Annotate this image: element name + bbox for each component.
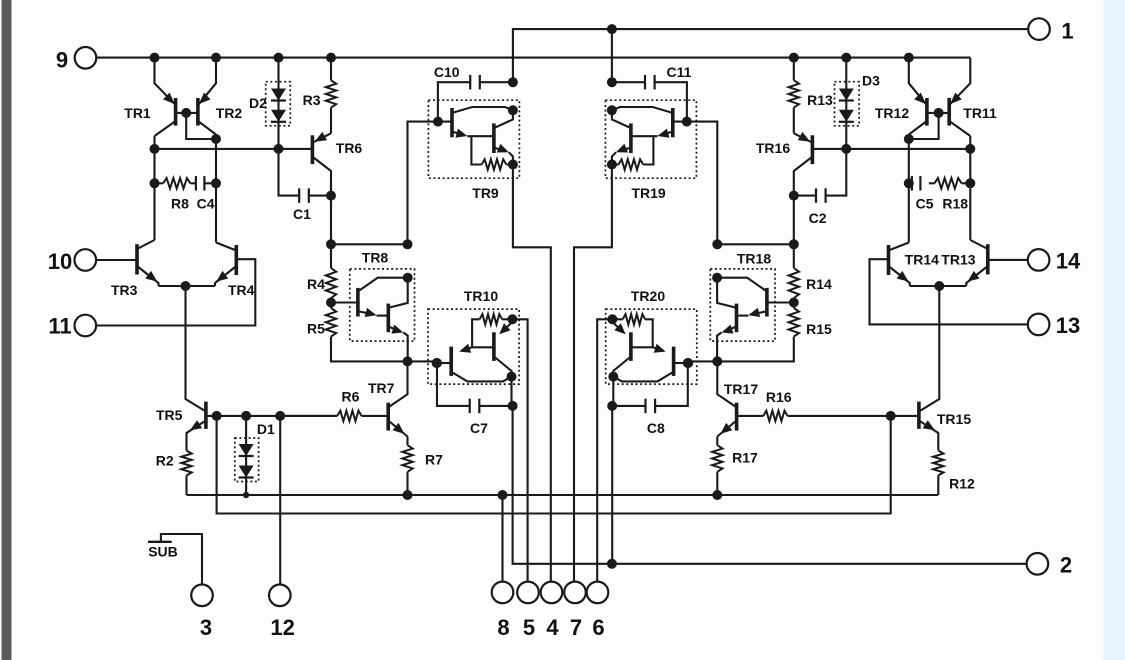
label C8 <box>647 420 665 436</box>
transistor TR6 <box>312 132 331 196</box>
svg-text:7: 7 <box>570 615 582 640</box>
capacitor C7 <box>470 399 513 414</box>
composite transistor TR19 <box>605 100 696 178</box>
diode pair D1 <box>235 416 259 495</box>
node D1 bottom on ground wire <box>243 492 249 498</box>
svg-text:1: 1 <box>1061 19 1073 44</box>
svg-text:TR4: TR4 <box>228 282 255 298</box>
capacitor C5 <box>909 176 935 191</box>
label R14 <box>806 276 832 292</box>
pin 7 label <box>570 615 582 640</box>
node R7 on ground wire <box>403 490 413 500</box>
pin 2 terminal <box>1027 553 1049 575</box>
node TR19 collectors <box>607 105 617 115</box>
svg-text:TR7: TR7 <box>368 380 395 396</box>
resistor R6 <box>280 411 388 421</box>
svg-text:R6: R6 <box>342 389 360 405</box>
transistor TR7 <box>388 361 407 436</box>
wire TR8 collector to TR9 base <box>408 122 453 245</box>
node TR10 collectors <box>507 372 517 382</box>
svg-text:R4: R4 <box>307 276 325 292</box>
svg-text:TR9: TR9 <box>472 185 499 201</box>
transistor TR5 <box>187 402 206 451</box>
transistor TR13 <box>966 240 988 286</box>
node TR20 collectors <box>608 372 618 382</box>
node D2 bottom <box>274 144 284 154</box>
wire TR20 collector to pin 2 wire <box>612 377 613 564</box>
pin 14 terminal <box>1028 249 1050 271</box>
capacitor C10 <box>438 75 513 122</box>
wire TR20 base column <box>655 363 688 406</box>
node R8 left <box>150 178 160 188</box>
node TR19 emitter-resistor <box>607 160 617 170</box>
svg-text:10: 10 <box>48 249 72 274</box>
node C4 right <box>211 178 221 188</box>
svg-text:14: 14 <box>1056 249 1081 274</box>
node TR1 collector / base-wire <box>150 144 160 154</box>
node TR8 collector bus left <box>326 239 336 249</box>
node TR10 base <box>432 358 442 368</box>
label C4 <box>197 196 215 212</box>
wire ground bus <box>187 494 939 496</box>
label TR17 <box>724 381 758 397</box>
node TR8 collectors <box>403 273 413 283</box>
svg-text:3: 3 <box>200 615 212 640</box>
composite transistor TR18 <box>710 269 775 362</box>
wire TR19 column top <box>611 29 613 82</box>
label C2 <box>809 210 827 226</box>
composite transistor TR9 <box>428 100 519 178</box>
node TR18 collector bus right <box>789 239 799 249</box>
wire pin 8 column <box>501 495 503 582</box>
node TR9 collectors <box>508 105 518 115</box>
wire TR19 emitter to pin 7 <box>574 165 612 582</box>
svg-text:C1: C1 <box>293 206 311 222</box>
node R18 right <box>965 178 975 188</box>
node rail-D3 <box>841 53 851 63</box>
composite transistor TR20 <box>606 309 697 384</box>
label R15 <box>806 321 832 337</box>
wire TR2 collector column <box>215 135 217 243</box>
label D1 <box>257 421 275 437</box>
label TR12 <box>875 105 909 121</box>
capacitor C1 <box>279 149 332 203</box>
svg-text:SUB: SUB <box>148 544 178 560</box>
svg-text:8: 8 <box>497 615 509 640</box>
wire mirror output bus left <box>155 148 313 150</box>
label C10 <box>434 64 460 80</box>
wire TR11-TR12 base tie <box>927 112 949 114</box>
resistor R5 <box>326 303 437 362</box>
resistor R16 <box>737 411 788 421</box>
wire TR8 collector bus <box>331 243 408 245</box>
wire TR5 base bus <box>206 415 337 417</box>
transistor TR4 <box>215 243 236 287</box>
svg-text:TR6: TR6 <box>336 140 363 156</box>
node TR9 emitter-resistor <box>508 160 518 170</box>
svg-text:13: 13 <box>1056 313 1080 338</box>
resistor R8 <box>155 178 191 188</box>
label R16 <box>766 389 792 405</box>
label R7 <box>425 452 443 468</box>
wire TR1-TR2 base tie <box>176 112 198 114</box>
wire TR18 collector to TR19 base <box>673 122 718 245</box>
svg-text:R7: R7 <box>425 452 443 468</box>
pin 6 terminal <box>587 582 609 604</box>
capacitor C11 <box>612 75 687 122</box>
label TR7 <box>368 380 395 396</box>
resistor R7 <box>402 437 412 496</box>
wire TR2 emitter feed <box>199 58 216 105</box>
composite transistor TR10 <box>428 309 519 384</box>
svg-text:C11: C11 <box>667 64 692 80</box>
node TR8 collector bus right <box>403 239 413 249</box>
svg-text:D2: D2 <box>249 95 267 111</box>
node C8 left <box>607 401 617 411</box>
pin 4 terminal <box>541 582 563 604</box>
svg-text:TR19: TR19 <box>631 185 665 201</box>
pin 9 terminal <box>75 47 97 69</box>
node rail-R13 <box>789 53 799 63</box>
node C5 left <box>904 178 914 188</box>
pin 13 label <box>1056 313 1080 338</box>
pin 3 label <box>200 615 212 640</box>
svg-text:TR2: TR2 <box>216 105 243 121</box>
transistor TR1 <box>155 93 176 136</box>
wire pin 9 supply rail <box>96 57 970 59</box>
label C1 <box>293 206 311 222</box>
label TR11 <box>963 105 997 121</box>
wire TR8 base <box>331 301 358 303</box>
node TR15 base / bias wire <box>886 411 896 421</box>
pin 4 label <box>546 615 559 640</box>
label TR19 <box>631 185 665 201</box>
node pin 12 column <box>275 411 285 421</box>
label R13 <box>807 92 833 108</box>
label TR4 <box>228 282 255 298</box>
svg-text:TR13: TR13 <box>941 252 975 268</box>
svg-text:R12: R12 <box>949 476 975 492</box>
svg-text:TR3: TR3 <box>111 282 138 298</box>
svg-text:TR1: TR1 <box>124 105 151 121</box>
svg-text:R5: R5 <box>307 321 325 337</box>
wire TR10 collector to pin 2 rail <box>512 377 1027 564</box>
resistor R12 <box>933 451 943 496</box>
pin 1 terminal <box>1028 18 1050 40</box>
svg-text:C10: C10 <box>434 64 460 80</box>
capacitor C8 <box>612 399 655 414</box>
svg-text:D1: D1 <box>257 421 275 437</box>
resistor R3 <box>326 58 336 134</box>
wire pin 10 to TR3 base <box>96 259 137 261</box>
resistor R4 <box>326 268 336 303</box>
node rail-TR2 <box>211 53 221 63</box>
svg-text:R16: R16 <box>766 389 792 405</box>
resistor R15 <box>688 303 799 362</box>
label TR3 <box>111 282 138 298</box>
node TR18 collector bus left <box>712 239 722 249</box>
node TR5 base / bias wire <box>212 411 222 421</box>
svg-text:C4: C4 <box>197 196 215 212</box>
wire TR5-TR15 bias link <box>217 416 891 514</box>
resistor R18 <box>935 178 971 188</box>
transistor TR15 <box>919 402 938 451</box>
pin 1 label <box>1061 19 1073 44</box>
svg-text:4: 4 <box>546 615 559 640</box>
capacitor C4 <box>190 176 216 191</box>
node C2-TR16 collector <box>789 191 799 201</box>
pin 12 label <box>270 615 294 640</box>
svg-text:D3: D3 <box>862 73 880 89</box>
node diff pair emitters <box>181 281 191 291</box>
node R4-R5 TR8 base <box>326 298 336 308</box>
diode pair D2 <box>266 58 291 149</box>
wire TR1 emitter feed <box>155 58 175 105</box>
svg-text:9: 9 <box>56 48 68 73</box>
svg-text:R14: R14 <box>806 276 832 292</box>
svg-text:C2: C2 <box>809 210 827 226</box>
label TR2 <box>216 105 243 121</box>
left gray border bar <box>2 0 12 660</box>
label TR13 <box>941 252 975 268</box>
svg-text:2: 2 <box>1060 553 1072 578</box>
svg-text:C7: C7 <box>470 420 488 436</box>
resistor R14 <box>789 268 799 303</box>
wire TR11 emitter feed <box>950 58 970 105</box>
wire mirror output bus right <box>812 148 970 150</box>
node TR12 collector tie <box>904 134 914 144</box>
wire TR13-TR14 emitter bus <box>910 285 967 287</box>
node TR20 base <box>683 358 693 368</box>
label R12 <box>949 476 975 492</box>
transistor TR16 <box>794 132 813 196</box>
svg-text:TR20: TR20 <box>631 288 665 304</box>
svg-text:C5: C5 <box>916 196 934 212</box>
svg-text:TR10: TR10 <box>464 288 498 304</box>
wire TR11 collector column <box>969 136 971 240</box>
resistor R2 <box>181 451 191 496</box>
svg-text:TR11: TR11 <box>963 105 997 121</box>
diode pair D3 <box>835 58 860 149</box>
pin 6 label <box>592 615 604 640</box>
pin 12 terminal <box>269 585 291 607</box>
wire TR6 collector to R4 <box>330 196 332 268</box>
svg-text:R2: R2 <box>156 453 174 469</box>
transistor TR14 <box>889 243 910 287</box>
label TR18 <box>737 251 771 267</box>
node pin 8 on ground bus <box>498 490 508 500</box>
composite transistor TR8 <box>350 269 415 362</box>
label R2 <box>156 453 174 469</box>
pin 8 terminal <box>492 582 514 604</box>
wire pin 12 column <box>279 416 281 585</box>
node TR1-TR2 bases <box>181 108 191 118</box>
resistor R17 <box>712 437 722 496</box>
wire TR15 base bus <box>788 415 919 417</box>
pin 5 label <box>523 615 535 640</box>
node rail-D2 <box>274 53 284 63</box>
node C7 right <box>508 401 518 411</box>
pin 8 label <box>497 615 509 640</box>
svg-text:C8: C8 <box>647 420 665 436</box>
svg-text:TR17: TR17 <box>724 381 758 397</box>
svg-text:11: 11 <box>48 314 71 339</box>
svg-text:TR12: TR12 <box>875 105 909 121</box>
node R17 on ground wire <box>712 490 722 500</box>
wire TR12 collector column <box>908 135 910 243</box>
label TR9 <box>472 185 499 201</box>
node TR18 collectors <box>712 273 722 283</box>
wire TR9 emitter to pin 4 <box>513 165 551 582</box>
svg-text:TR14: TR14 <box>905 252 939 268</box>
label TR15 <box>937 411 971 427</box>
wire bases to TR2 collector <box>186 113 216 139</box>
wire TR12 emitter feed <box>909 58 926 105</box>
transistor TR11 <box>949 93 970 136</box>
capacitor C2 <box>794 149 847 203</box>
wire TR18 collector bus <box>717 243 794 245</box>
label SUB <box>148 544 178 560</box>
label TR10 <box>464 288 498 304</box>
label R4 <box>307 276 325 292</box>
svg-text:R8: R8 <box>171 196 189 212</box>
resistor R13 <box>789 58 799 134</box>
label TR8 <box>362 250 389 266</box>
label R17 <box>732 450 758 466</box>
svg-text:TR5: TR5 <box>156 407 183 423</box>
wire bases to TR12 collector <box>909 113 939 139</box>
svg-text:R18: R18 <box>942 196 968 212</box>
label R18 <box>942 196 968 212</box>
wire TR10 emitter to pin 5 <box>512 319 527 581</box>
wire TR18 base <box>767 301 794 303</box>
node TR11-TR12 bases <box>934 108 944 118</box>
pin 13 terminal <box>1028 314 1050 336</box>
node rail-TR12 <box>904 53 914 63</box>
node TR10 emitter-resistor <box>507 314 517 324</box>
label D2 <box>249 95 267 111</box>
pin 10 terminal <box>75 249 97 271</box>
pin 2 label <box>1060 553 1072 578</box>
pin 14 label <box>1056 249 1081 274</box>
node TR2 collector tie <box>211 134 221 144</box>
svg-text:TR8: TR8 <box>362 250 389 266</box>
node C11 left on TR19 column <box>607 77 617 87</box>
label C5 <box>916 196 934 212</box>
svg-text:TR15: TR15 <box>937 411 971 427</box>
wire TR1 collector column <box>153 136 155 240</box>
wire pin 13 to TR14 base <box>870 259 1028 324</box>
label TR20 <box>631 288 665 304</box>
label TR5 <box>156 407 183 423</box>
svg-text:TR16: TR16 <box>756 140 790 156</box>
wire diff emitters to TR5 collector <box>186 286 206 412</box>
label R6 <box>342 389 360 405</box>
svg-text:5: 5 <box>523 615 535 640</box>
pin 5 terminal <box>517 582 539 604</box>
wire TR10 base column <box>437 363 470 406</box>
node TR11 collector / base-wire <box>965 144 975 154</box>
node TR20 emitter-resistor <box>607 314 617 324</box>
node pin1-TR19 column <box>607 24 617 34</box>
pin 9 label <box>56 48 68 73</box>
wire TR20 emitter to pin 6 <box>597 319 612 581</box>
wire output emitters to TR15 collector <box>919 286 939 412</box>
node TR20 collector on pin2 wire <box>607 559 617 569</box>
label C7 <box>470 420 488 436</box>
svg-text:6: 6 <box>592 615 604 640</box>
node R14-R15 TR18 base <box>789 298 799 308</box>
label R8 <box>171 196 189 212</box>
label TR1 <box>124 105 151 121</box>
svg-text:TR18: TR18 <box>737 251 771 267</box>
wire pin 14 to TR13 base <box>988 259 1028 261</box>
node output diff emitters <box>934 281 944 291</box>
pin 10 label <box>48 249 72 274</box>
svg-text:R15: R15 <box>806 321 832 337</box>
node D3 bottom <box>841 144 851 154</box>
node C1-TR6 collector <box>326 191 336 201</box>
transistor TR3 <box>137 240 159 286</box>
pin 3 terminal <box>191 585 213 607</box>
svg-text:R13: R13 <box>807 92 833 108</box>
wire pin 1 rail <box>513 29 1028 82</box>
node rail-R3 <box>326 53 336 63</box>
transistor TR17 <box>717 361 736 436</box>
substrate SUB connection <box>148 534 202 584</box>
right light blue sidebar <box>1104 0 1125 660</box>
svg-text:R17: R17 <box>732 450 758 466</box>
node TR8 emitter on bottom wire <box>403 356 413 366</box>
label D3 <box>862 73 880 89</box>
transistor TR12 <box>909 93 927 135</box>
node rail-TR1 <box>150 53 160 63</box>
node C10 right on pin1 column <box>508 77 518 87</box>
wire TR16 collector to R14 <box>793 196 795 268</box>
label C11 <box>667 64 692 80</box>
transistor TR2 <box>198 93 216 135</box>
pin 11 label <box>48 314 71 339</box>
svg-text:R3: R3 <box>303 92 321 108</box>
label R3 <box>303 92 321 108</box>
wire TR3-TR4 emitter bus <box>159 285 216 287</box>
node TR18 emitter on bottom wire <box>712 356 722 366</box>
pin 7 terminal <box>564 582 586 604</box>
pin 11 terminal <box>75 315 97 337</box>
label TR14 <box>905 252 939 268</box>
node D1 top <box>241 411 251 421</box>
wire pin 11 to TR4 base <box>96 259 255 325</box>
svg-text:12: 12 <box>270 615 294 640</box>
label TR16 <box>756 140 790 156</box>
label R5 <box>307 321 325 337</box>
label TR6 <box>336 140 363 156</box>
